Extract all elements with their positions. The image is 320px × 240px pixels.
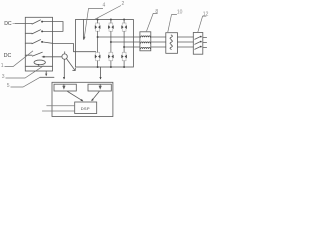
svg-text:4: 4 bbox=[103, 2, 106, 8]
svg-text:12: 12 bbox=[203, 11, 209, 17]
svg-text:8: 8 bbox=[155, 9, 158, 15]
svg-text:5: 5 bbox=[7, 83, 10, 89]
svg-text:2: 2 bbox=[122, 1, 125, 7]
svg-text:-: - bbox=[12, 20, 14, 26]
svg-text:DC: DC bbox=[4, 21, 12, 27]
svg-text:1: 1 bbox=[1, 63, 4, 69]
svg-text:DSP: DSP bbox=[81, 106, 90, 111]
svg-text:10: 10 bbox=[177, 9, 183, 15]
svg-text:DC: DC bbox=[4, 53, 12, 59]
svg-text:3: 3 bbox=[2, 74, 5, 80]
